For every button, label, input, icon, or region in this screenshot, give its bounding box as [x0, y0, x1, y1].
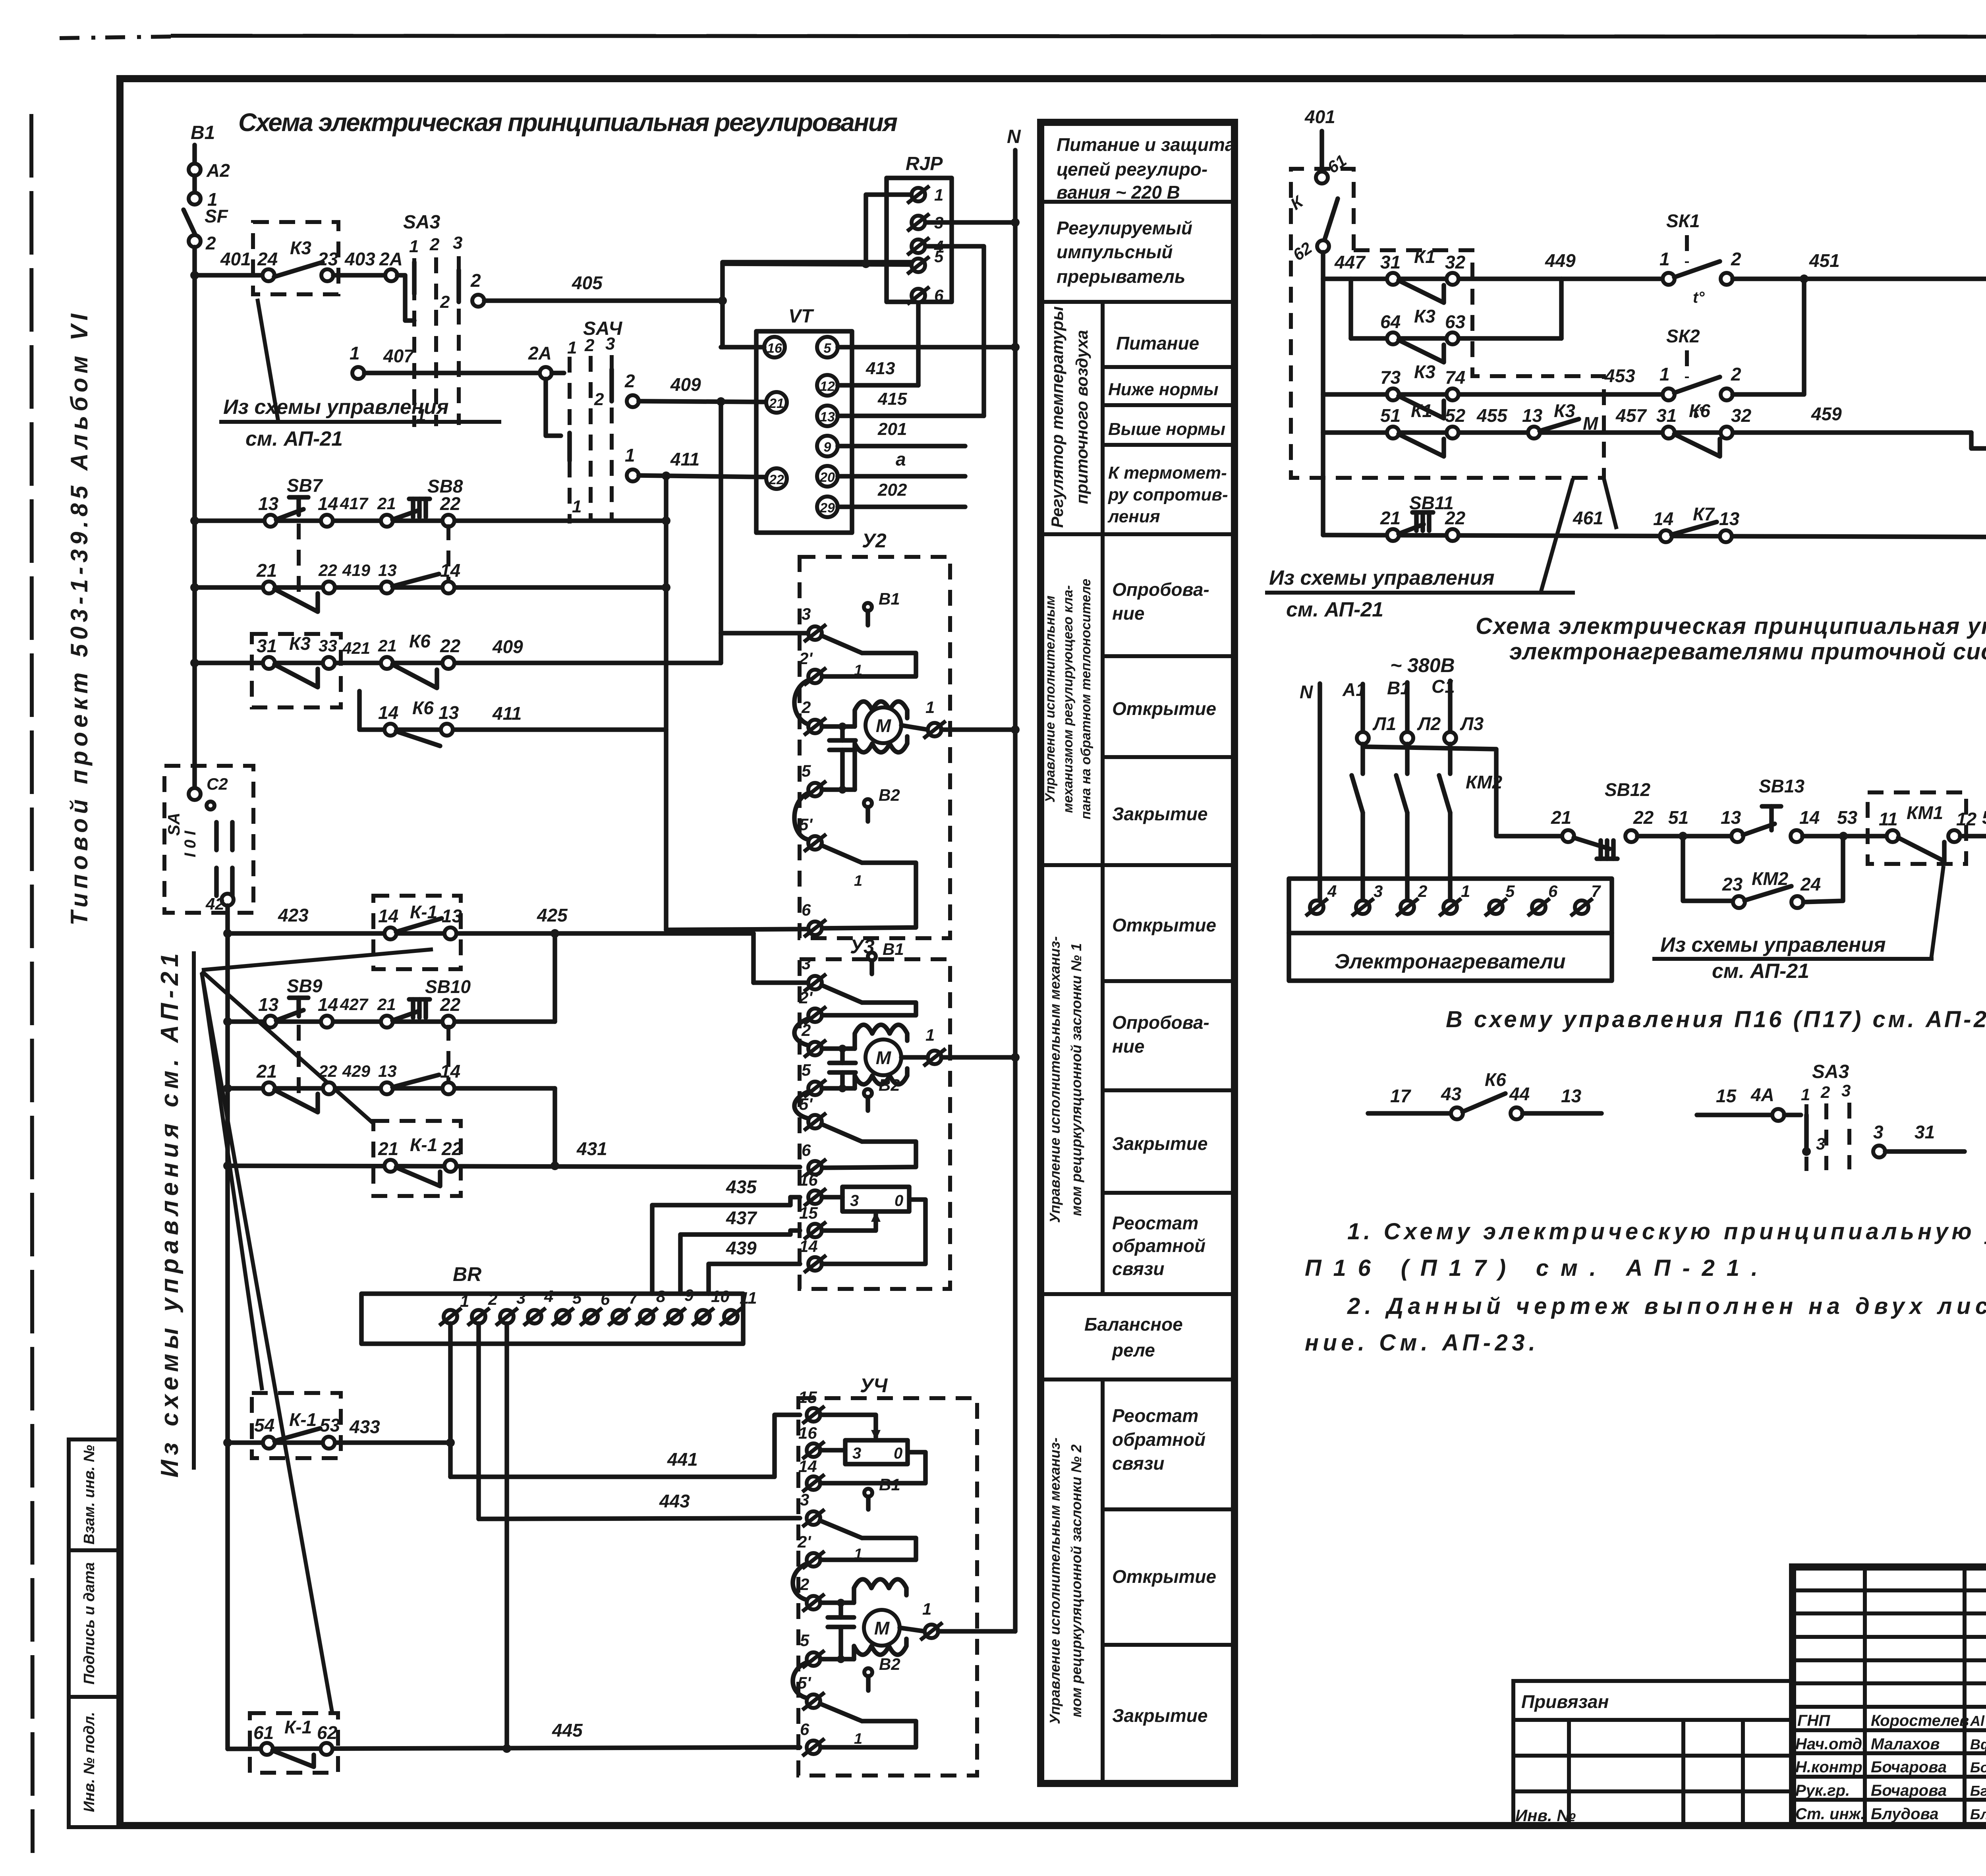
U2 capacitor: [840, 726, 845, 740]
svg-text:437: 437: [726, 1208, 757, 1228]
svg-text:11: 11: [1879, 809, 1898, 829]
svg-text:Питание и защита: Питание и защита: [1057, 134, 1235, 155]
svg-text:22: 22: [440, 994, 461, 1015]
contact K6 aux: [381, 657, 393, 669]
svg-text:М: М: [874, 1618, 890, 1638]
svg-text:Взам. инв. №: Взам. инв. №: [81, 1445, 98, 1545]
wire 407: [364, 371, 540, 375]
svg-text:461: 461: [1573, 508, 1603, 528]
relay contact K3 dashed box 2: [252, 634, 341, 707]
VT pin 21: [766, 392, 787, 413]
svg-text:15: 15: [799, 1204, 818, 1222]
svg-text:К-1: К-1: [289, 1409, 317, 1430]
svg-text:5': 5': [798, 1673, 811, 1692]
selector SA4 dashed columns: [568, 357, 572, 524]
rotated column split line A: [1101, 302, 1105, 865]
svg-text:8: 8: [656, 1287, 666, 1306]
U2 terminal 3: [804, 624, 826, 642]
contact A2: [189, 164, 201, 176]
wire 55: [1960, 834, 1986, 839]
svg-text:0: 0: [894, 1445, 902, 1462]
svg-text:2: 2: [1731, 249, 1741, 269]
svg-text:1: 1: [350, 343, 360, 363]
svg-text:N: N: [1007, 126, 1021, 147]
relay contact K-1 box c: [252, 1393, 341, 1458]
svg-text:Закрытие: Закрытие: [1112, 1705, 1207, 1726]
svg-text:см. АП-21: см. АП-21: [245, 427, 343, 450]
svg-text:453: 453: [1604, 365, 1635, 386]
U4 limit switch B2: [864, 1668, 872, 1676]
contact 2 of SA3: [472, 295, 484, 307]
wire 437: [680, 1231, 800, 1294]
U3 top coil: [855, 1025, 907, 1049]
wire row SB11 461 14 K7 13: [1323, 535, 1986, 537]
wire 405 riser to RJP: [723, 262, 918, 347]
svg-text:Вф: Вф: [1970, 1736, 1986, 1752]
svg-text:427: 427: [340, 995, 369, 1014]
svg-text:4: 4: [1327, 882, 1337, 900]
svg-text:62: 62: [317, 1722, 338, 1743]
svg-text:22: 22: [1445, 508, 1466, 528]
svg-text:Бог: Бог: [1970, 1759, 1986, 1776]
svg-text:Выше нормы: Выше нормы: [1108, 419, 1225, 439]
svg-text:417: 417: [340, 494, 369, 513]
svg-text:3: 3: [1816, 1134, 1825, 1153]
svg-text:Аl: Аl: [1970, 1713, 1985, 1729]
U3 capacitor: [840, 1049, 845, 1063]
svg-text:К6: К6: [409, 631, 431, 651]
N bus vertical: [1013, 150, 1018, 1631]
actuator U4 dashed box: [798, 1398, 977, 1776]
contacts L1 L2 L3: [1357, 732, 1369, 744]
svg-text:ние: ние: [1112, 1036, 1144, 1057]
svg-text:3: 3: [453, 233, 462, 253]
svg-text:443: 443: [659, 1491, 690, 1511]
svg-text:2: 2: [429, 235, 440, 254]
svg-text:М: М: [1583, 413, 1599, 434]
VT pin 13: [817, 406, 838, 426]
wire 405: [484, 298, 723, 303]
svg-text:51: 51: [1668, 807, 1688, 828]
svg-text:9: 9: [684, 1286, 694, 1304]
bus right vertical: [1321, 252, 1325, 535]
svg-text:29: 29: [819, 500, 835, 516]
svg-text:В схему управления П16 (П17): В схему управления П16 (П17) см. АП-21: [1446, 1007, 1986, 1032]
contact 1 of SA3 row: [352, 367, 364, 379]
U3 feed t3: [753, 980, 808, 985]
svg-text:5: 5: [572, 1289, 582, 1307]
svg-text:32: 32: [1445, 252, 1466, 272]
svg-text:1. Схему электрическую принц: 1. Схему электрическую принципиальную уп…: [1347, 1219, 1986, 1244]
wire row 419: [195, 585, 666, 590]
U4 terminal 2: [802, 1594, 825, 1611]
svg-text:202: 202: [877, 480, 907, 500]
U3 jumper 2'-2: [794, 1018, 809, 1045]
svg-text:Закрытие: Закрытие: [1112, 1133, 1207, 1154]
svg-text:VТ: VТ: [788, 306, 814, 327]
U4 jumper 2'-2: [793, 1563, 807, 1600]
signal lamp HL2: [1971, 433, 1986, 448]
wire 2A to SA3 bottom: [397, 275, 414, 321]
svg-text:407: 407: [383, 346, 415, 366]
U2 top coil: [855, 701, 907, 726]
U2 limit switch B1: [864, 603, 872, 611]
svg-text:К3: К3: [289, 633, 311, 654]
svg-text:Блу: Блу: [1970, 1806, 1986, 1822]
svg-text:Балансное: Балансное: [1084, 1314, 1183, 1335]
svg-text:Регулятор температуры: Регулятор температуры: [1048, 306, 1066, 528]
svg-text:В2: В2: [879, 786, 900, 804]
U2 wire t6 feed: [666, 929, 808, 930]
svg-text:1: 1: [922, 1600, 931, 1618]
wire a: [838, 474, 965, 479]
svg-text:21: 21: [1380, 508, 1401, 528]
rotated column split line C: [1101, 865, 1105, 1294]
U4 limit switch B1: [864, 1489, 872, 1497]
BR terminals: [439, 1286, 757, 1325]
relay contact KM1 box: [1868, 792, 1966, 864]
svg-text:54: 54: [254, 1415, 274, 1435]
button SB11: [1387, 529, 1399, 541]
svg-text:3: 3: [1873, 1122, 1884, 1142]
svg-text:Коростелев: Коростелев: [1871, 1712, 1969, 1729]
svg-text:Привязан: Привязан: [1521, 1691, 1609, 1712]
svg-text:441: 441: [667, 1449, 698, 1470]
wire 415: [838, 413, 984, 418]
U3 motor M: [865, 1039, 901, 1075]
U4 terminal 3: [802, 1509, 825, 1527]
wire 443 row: [479, 1518, 800, 1519]
contact K 62: [1317, 240, 1329, 252]
svg-text:31: 31: [1915, 1122, 1935, 1142]
svg-text:2': 2': [799, 649, 813, 668]
svg-text:1: 1: [854, 662, 862, 679]
svg-text:В2: В2: [879, 1655, 900, 1673]
U4 top coil: [854, 1579, 906, 1603]
svg-text:см. АП-21: см. АП-21: [1712, 960, 1809, 983]
wire 51 segment: [1637, 834, 1731, 839]
svg-text:16: 16: [767, 341, 782, 356]
button SB10: [381, 1016, 393, 1028]
contact 1: [189, 193, 201, 205]
svg-text:Бочарова: Бочарова: [1871, 1782, 1947, 1799]
svg-text:24: 24: [257, 249, 278, 269]
U3 pot box: [822, 1195, 842, 1200]
svg-text:7: 7: [1591, 882, 1601, 900]
svg-text:3: 3: [800, 1490, 809, 1509]
svg-text:14: 14: [318, 994, 338, 1015]
U3 terminal 5: [804, 1080, 826, 1097]
svg-text:449: 449: [1545, 250, 1576, 271]
svg-text:Л1: Л1: [1372, 713, 1396, 734]
svg-text:14: 14: [378, 906, 398, 926]
svg-text:42: 42: [205, 895, 224, 913]
svg-text:Блудова: Блудова: [1871, 1805, 1938, 1823]
svg-text:1: 1: [934, 185, 943, 204]
svg-text:431: 431: [576, 1138, 607, 1159]
svg-text:Реостат: Реостат: [1112, 1213, 1198, 1233]
U4 terminal 1 and N link: [900, 1628, 925, 1631]
balance relay BR box: [361, 1294, 743, 1344]
linkage SB8 dashed: [446, 524, 450, 584]
svg-text:405: 405: [572, 272, 603, 293]
svg-text:447: 447: [1334, 252, 1366, 272]
U3 jumper 5-5': [794, 1092, 809, 1119]
svg-text:Ст. инж.: Ст. инж.: [1795, 1805, 1865, 1823]
U4 terminal 6: [802, 1739, 825, 1756]
wire 401: [195, 273, 262, 278]
contact 2 of SA4: [627, 395, 639, 407]
svg-text:SВ13: SВ13: [1759, 776, 1804, 796]
svg-text:22: 22: [440, 493, 461, 514]
svg-text:73: 73: [1380, 367, 1401, 388]
svg-text:14: 14: [1653, 508, 1673, 529]
svg-text:Открытие: Открытие: [1112, 1566, 1216, 1587]
svg-text:К-1: К-1: [284, 1717, 312, 1737]
svg-text:ру сопротив-: ру сопротив-: [1108, 485, 1228, 504]
U4 capacitor: [838, 1603, 843, 1617]
svg-text:Питание: Питание: [1116, 333, 1199, 354]
wire VT5 to N: [838, 345, 1015, 350]
svg-text:74: 74: [1445, 367, 1465, 388]
svg-text:мом рециркуляционной заслонки: мом рециркуляционной заслонки № 2: [1068, 1444, 1084, 1717]
svg-text:К3: К3: [290, 238, 311, 258]
contact K3 blade: [274, 262, 323, 277]
svg-text:Ниже нормы: Ниже нормы: [1108, 380, 1219, 399]
svg-text:Опробова-: Опробова-: [1112, 1012, 1209, 1033]
U3 terminal 5': [804, 1113, 826, 1130]
svg-text:Схема электрическая принципи: Схема электрическая принципиальная управ…: [1476, 613, 1986, 639]
U2 bottom coil: [855, 736, 907, 790]
svg-text:14: 14: [378, 702, 398, 723]
svg-text:SВ12: SВ12: [1605, 779, 1650, 800]
KM2 main contacts: [1360, 744, 1365, 774]
svg-text:импульсный: импульсный: [1057, 242, 1173, 262]
central function table outline: [1041, 122, 1234, 1783]
svg-text:13: 13: [258, 493, 279, 514]
svg-text:ления: ления: [1107, 507, 1160, 526]
svg-text:33: 33: [319, 636, 337, 655]
U4 terminal 14 loop: [802, 1474, 825, 1492]
relay contact K-1 box b: [373, 1121, 461, 1196]
svg-text:а: а: [896, 449, 906, 469]
linkage SB7 dashed: [297, 524, 301, 596]
svg-text:53: 53: [320, 1415, 340, 1435]
VT pin 29: [817, 497, 838, 517]
svg-text:21: 21: [1551, 807, 1571, 828]
svg-text:механизмом регулирующего кла-: механизмом регулирующего кла-: [1061, 585, 1076, 813]
U2 terminal 5': [804, 834, 826, 852]
svg-text:Открытие: Открытие: [1112, 915, 1216, 935]
svg-text:459: 459: [1811, 404, 1842, 424]
svg-text:1: 1: [460, 1292, 469, 1310]
U2 terminal 6: [804, 920, 826, 937]
svg-text:12: 12: [820, 379, 835, 394]
svg-text:Из схемы управления: Из схемы управления: [223, 396, 449, 419]
svg-text:прерыватель: прерыватель: [1057, 266, 1185, 287]
svg-text:Бг: Бг: [1970, 1783, 1986, 1799]
svg-text:43: 43: [1441, 1084, 1462, 1104]
switch SF blade: [184, 210, 195, 235]
svg-text:К термомет-: К термомет-: [1108, 463, 1227, 483]
svg-text:22: 22: [318, 561, 337, 580]
contact K3 24: [263, 269, 274, 281]
svg-text:УЧ: УЧ: [860, 1374, 888, 1397]
SA4 contact marks: [567, 433, 572, 461]
wire row 447: [1323, 276, 1663, 281]
svg-text:Открытие: Открытие: [1112, 698, 1216, 719]
svg-text:13: 13: [442, 906, 462, 926]
svg-text:411: 411: [670, 449, 699, 469]
selector SA dashed box: [164, 766, 253, 913]
node 2A first: [385, 269, 397, 281]
svg-text:SА3: SА3: [1812, 1061, 1849, 1082]
svg-text:14: 14: [1799, 807, 1820, 828]
svg-text:К3: К3: [1554, 400, 1575, 421]
wire 2A to SA4: [546, 379, 561, 436]
svg-text:22: 22: [441, 1138, 462, 1159]
svg-text:В1: В1: [883, 940, 904, 958]
svg-text:Л3: Л3: [1460, 713, 1484, 734]
svg-text:Закрытие: Закрытие: [1112, 804, 1207, 824]
svg-text:44: 44: [1509, 1084, 1530, 1104]
svg-text:421: 421: [342, 639, 370, 657]
button SB9: [265, 1016, 276, 1028]
wire RJP pin1 loop: [866, 195, 911, 264]
regulator unit VT: [756, 331, 852, 533]
svg-text:SА3: SА3: [403, 212, 440, 233]
svg-text:6: 6: [802, 900, 811, 919]
svg-text:5: 5: [824, 341, 832, 356]
svg-text:t°: t°: [1693, 289, 1705, 306]
svg-text:1: 1: [1660, 364, 1670, 384]
wire RJP pin3 to N: [925, 220, 1015, 225]
svg-text:17: 17: [1390, 1086, 1412, 1106]
wire 435: [652, 1197, 800, 1294]
bus 2 vertical: [225, 906, 230, 1749]
U2 motor M: [865, 707, 901, 743]
U2 terminal 2: [804, 718, 826, 735]
svg-text:1: 1: [1801, 1085, 1810, 1104]
wire BR1 down to 441: [448, 1323, 453, 1477]
svg-text:мом рециркуляционной заслонки: мом рециркуляционной заслонки № 1: [1068, 943, 1084, 1216]
svg-text:3: 3: [605, 334, 615, 354]
wire 441 row: [450, 1415, 800, 1477]
svg-text:I 0 I: I 0 I: [182, 831, 199, 858]
wire row 31 K3 33 / 21 K6 22: [195, 661, 721, 665]
svg-text:1: 1: [854, 1546, 862, 1563]
svg-text:52: 52: [1445, 405, 1466, 426]
svg-text:21: 21: [378, 1138, 398, 1159]
wire row 14 K6 13 / 411: [359, 691, 666, 730]
relay contact K-1 box a: [373, 896, 461, 969]
svg-text:14: 14: [799, 1237, 818, 1256]
svg-text:13: 13: [820, 410, 835, 425]
svg-text:5': 5': [799, 815, 813, 834]
svg-text:429: 429: [342, 1062, 371, 1080]
wire RJP pin4 to 415: [925, 246, 984, 416]
svg-text:21: 21: [378, 636, 397, 655]
svg-text:вания ~ 220 В: вания ~ 220 В: [1057, 182, 1180, 203]
fragment SA3 lower row: [1873, 1146, 1885, 1157]
svg-text:15: 15: [798, 1388, 817, 1407]
svg-text:В1: В1: [879, 1475, 900, 1494]
svg-text:ГНП: ГНП: [1797, 1712, 1830, 1729]
svg-text:3: 3: [516, 1289, 525, 1307]
svg-text:К3: К3: [1414, 306, 1435, 327]
svg-text:Реостат: Реостат: [1112, 1405, 1198, 1426]
svg-text:Малахов: Малахов: [1871, 1735, 1940, 1753]
svg-text:14: 14: [440, 1061, 460, 1082]
svg-text:2: 2: [584, 336, 595, 355]
title block signature rows: [1793, 1588, 1986, 1592]
svg-text:1: 1: [925, 698, 935, 717]
left paper edge line: [31, 114, 33, 1853]
svg-text:В1: В1: [191, 122, 215, 143]
svg-text:22: 22: [769, 472, 784, 487]
svg-text:1: 1: [854, 1731, 862, 1747]
U3 terminal 3: [804, 974, 826, 991]
svg-text:13: 13: [439, 702, 459, 723]
U3 limit switch B1: [868, 952, 876, 960]
wire row 423 / K-1 / 425: [228, 931, 753, 936]
svg-text:10: 10: [711, 1287, 730, 1306]
U3 terminal 15 arrow: [804, 1222, 826, 1239]
svg-text:Опробова-: Опробова-: [1112, 579, 1209, 600]
svg-text:401: 401: [1304, 106, 1335, 127]
svg-text:32: 32: [1731, 405, 1752, 426]
svg-text:21: 21: [377, 494, 396, 513]
svg-text:3: 3: [852, 1445, 861, 1462]
svg-text:409: 409: [670, 374, 701, 395]
U3 terminal 14 loop: [804, 1255, 826, 1273]
svg-text:457: 457: [1615, 405, 1647, 426]
svg-text:1: 1: [854, 873, 862, 889]
svg-text:53: 53: [1837, 807, 1858, 828]
svg-text:Из схемы управления см. А: Из схемы управления см. АП-21: [156, 953, 184, 1478]
wire SK2 to 451 riser: [1733, 279, 1804, 394]
wire row 429: [228, 1086, 555, 1091]
svg-text:439: 439: [726, 1238, 757, 1258]
svg-text:SВ9: SВ9: [287, 976, 323, 996]
svg-text:14: 14: [440, 560, 460, 581]
contact 13 SB8 deck2: [381, 582, 393, 593]
SA3 contact marks: [412, 262, 417, 294]
contact 2 of SF: [189, 235, 201, 247]
wire row 431 / K-1 b: [228, 1166, 800, 1167]
svg-text:Инв. №: Инв. №: [1515, 1806, 1576, 1825]
svg-text:415: 415: [877, 389, 907, 409]
button SB7: [265, 515, 276, 527]
svg-text:5: 5: [934, 247, 944, 266]
U2 feed t3: [721, 631, 808, 636]
svg-text:6: 6: [1548, 882, 1558, 900]
svg-text:В2: В2: [879, 1076, 900, 1094]
svg-text:реле: реле: [1111, 1340, 1155, 1360]
svg-text:6: 6: [601, 1290, 610, 1308]
svg-text:Нач.отд.: Нач.отд.: [1795, 1735, 1866, 1753]
U3 terminal 1 and N link: [901, 1055, 928, 1060]
KM2 aux bypass: [1683, 836, 1733, 901]
svg-text:см. АП-21: см. АП-21: [1286, 598, 1383, 621]
svg-text:Регулируемый: Регулируемый: [1057, 218, 1192, 238]
svg-text:ВR: ВR: [453, 1263, 481, 1285]
svg-text:2: 2: [801, 698, 811, 717]
svg-text:связи: связи: [1112, 1258, 1164, 1279]
annotation diagonal to K3: [257, 299, 278, 420]
U4 pot box: [845, 1440, 908, 1464]
central table header cell line: [1041, 200, 1234, 204]
